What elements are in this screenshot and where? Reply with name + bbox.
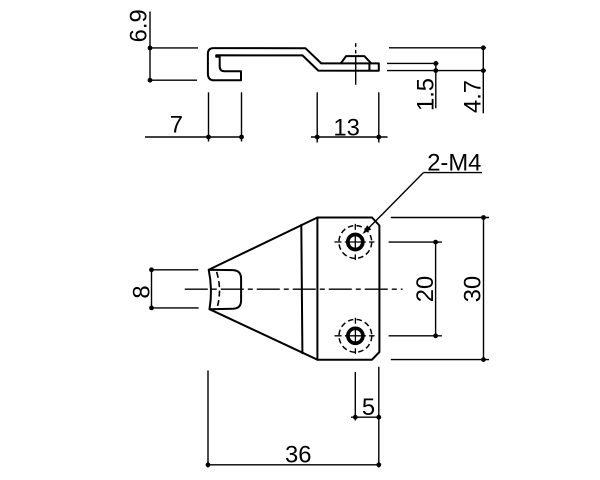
svg-text:1.5: 1.5 xyxy=(412,78,439,111)
part profile outline (bent sheet metal hook) xyxy=(208,48,379,80)
svg-text:20: 20 xyxy=(412,276,439,302)
taper line top xyxy=(209,218,317,270)
leader arrowhead xyxy=(363,225,372,234)
svg-text:30: 30 xyxy=(460,276,487,302)
svg-text:6.9: 6.9 xyxy=(126,9,153,42)
dimple centerline (dashed) xyxy=(355,43,357,85)
hole M4 bottom xyxy=(335,318,375,354)
plate outline with chamfered corners xyxy=(209,218,380,360)
dimension 1.5 xyxy=(435,63,437,108)
svg-text:13: 13 xyxy=(333,114,359,141)
svg-text:8: 8 xyxy=(128,285,155,298)
dimension 13 xyxy=(311,92,388,142)
hole M4 top xyxy=(334,224,374,260)
dimension 5 xyxy=(351,367,379,468)
dimension 6.9 xyxy=(150,12,198,81)
svg-text:36: 36 xyxy=(285,442,311,469)
dimension 1.5 and 4.7 extension lines xyxy=(387,48,486,114)
bend tangent line xyxy=(301,225,302,353)
dimension 7 xyxy=(145,92,243,141)
dimension 4.7 xyxy=(482,48,484,114)
dimension 30 xyxy=(391,218,489,360)
dimple bump xyxy=(341,56,371,63)
svg-text:4.7: 4.7 xyxy=(460,80,487,113)
hook nose tab xyxy=(209,270,241,309)
nose bend line (dashed arc) xyxy=(217,272,220,308)
svg-text:7: 7 xyxy=(170,111,183,138)
svg-text:5: 5 xyxy=(362,394,375,421)
dimple through-line at bump right base xyxy=(368,63,370,70)
dimension 8 xyxy=(152,270,199,308)
horizontal centerline xyxy=(185,288,403,290)
dimension 20 xyxy=(389,242,442,336)
taper line bottom xyxy=(210,309,318,360)
dimension 36 xyxy=(208,370,379,467)
